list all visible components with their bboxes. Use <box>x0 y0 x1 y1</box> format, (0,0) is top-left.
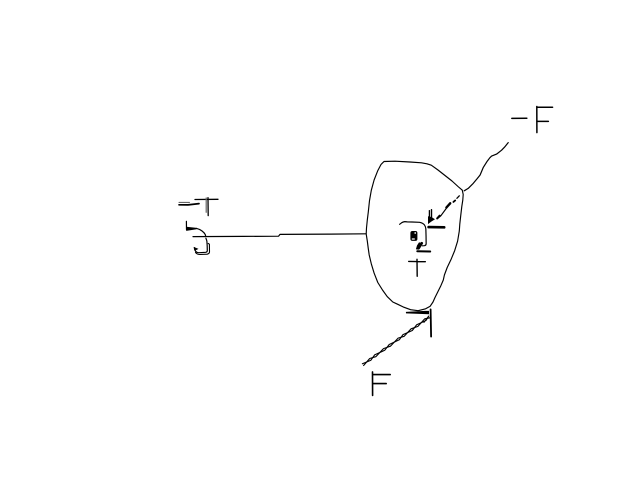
wire force line -F <box>464 143 508 191</box>
rotation arrow -T around rod end <box>186 221 209 254</box>
label T (inside blob) <box>409 259 426 276</box>
curved torque arrow with theta (inside blob) <box>400 222 431 252</box>
theta symbol <box>410 231 417 241</box>
label F (bottom) <box>373 372 391 396</box>
wire rod from -T to blob <box>193 234 366 237</box>
blob body outline <box>366 161 463 311</box>
label -F (top right) <box>512 107 553 133</box>
dashed force arrow -F into blob <box>428 196 459 228</box>
force arrow F (bottom, scribbled shaft) <box>362 309 431 365</box>
label -T (left) <box>179 198 218 216</box>
